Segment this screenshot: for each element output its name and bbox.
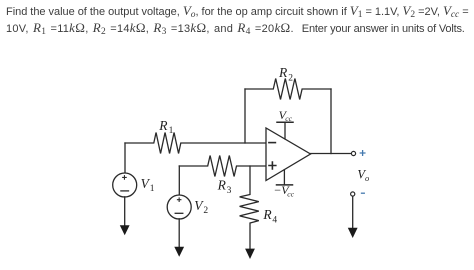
wire: V2 to ground	[178, 219, 180, 247]
ground arrow (V2)	[174, 247, 184, 257]
op-amp inverting input mark	[269, 142, 276, 144]
svg-text:cc: cc	[285, 114, 292, 123]
wire: - terminal to ground	[352, 196, 354, 228]
ground arrow (R4)	[245, 249, 255, 259]
wire: V1 riser	[124, 143, 126, 173]
label Vo (blue)	[357, 167, 369, 183]
resistor R4 label	[262, 207, 277, 225]
label - (blue)	[362, 192, 365, 194]
label V2	[194, 198, 208, 216]
resistor R3 label	[217, 178, 232, 196]
wire: feedback left branch	[244, 89, 246, 143]
label -Vcc	[274, 183, 294, 198]
label Vcc	[279, 108, 293, 123]
-Vcc supply stub and bar	[283, 170, 285, 185]
wire: V2 top node to non-inverting input (with R3)	[179, 156, 266, 177]
output terminal - (open circle)	[351, 192, 355, 196]
svg-text:R: R	[262, 207, 272, 222]
resistor R1 label	[158, 118, 173, 136]
resistor R2 label	[278, 65, 293, 83]
Vcc supply stub and bar	[284, 122, 286, 139]
svg-text:cc: cc	[287, 189, 294, 198]
svg-text:o: o	[365, 173, 369, 183]
output terminal + (open circle)	[351, 151, 355, 155]
svg-text:2: 2	[203, 206, 208, 216]
ground arrow (output)	[348, 228, 358, 238]
svg-text:4: 4	[272, 215, 277, 225]
svg-text:2: 2	[288, 73, 293, 83]
label + (blue)	[360, 151, 365, 156]
svg-text:R: R	[278, 65, 288, 80]
wire: V2 riser	[178, 166, 180, 195]
ground arrow (V1)	[120, 225, 130, 235]
label V1	[141, 176, 155, 194]
svg-text:1: 1	[150, 184, 155, 194]
op-amp non-inverting input mark	[269, 162, 276, 169]
voltage source V2	[167, 195, 191, 219]
svg-text:R: R	[217, 178, 227, 193]
wire: V1 to ground	[124, 197, 126, 226]
svg-text:3: 3	[227, 186, 232, 196]
voltage source V1	[113, 173, 137, 197]
wire: op-amp output to terminal	[311, 153, 352, 155]
wire: V1 top node to inverting input (with R1)	[125, 133, 266, 154]
resistor R2 (feedback)	[245, 79, 331, 100]
op-amp U1 triangle	[266, 128, 311, 181]
wire: feedback right branch to output node	[330, 89, 332, 154]
svg-text:1: 1	[169, 126, 174, 136]
svg-text:R: R	[158, 118, 168, 133]
resistor R4 (to ground)	[240, 166, 259, 249]
